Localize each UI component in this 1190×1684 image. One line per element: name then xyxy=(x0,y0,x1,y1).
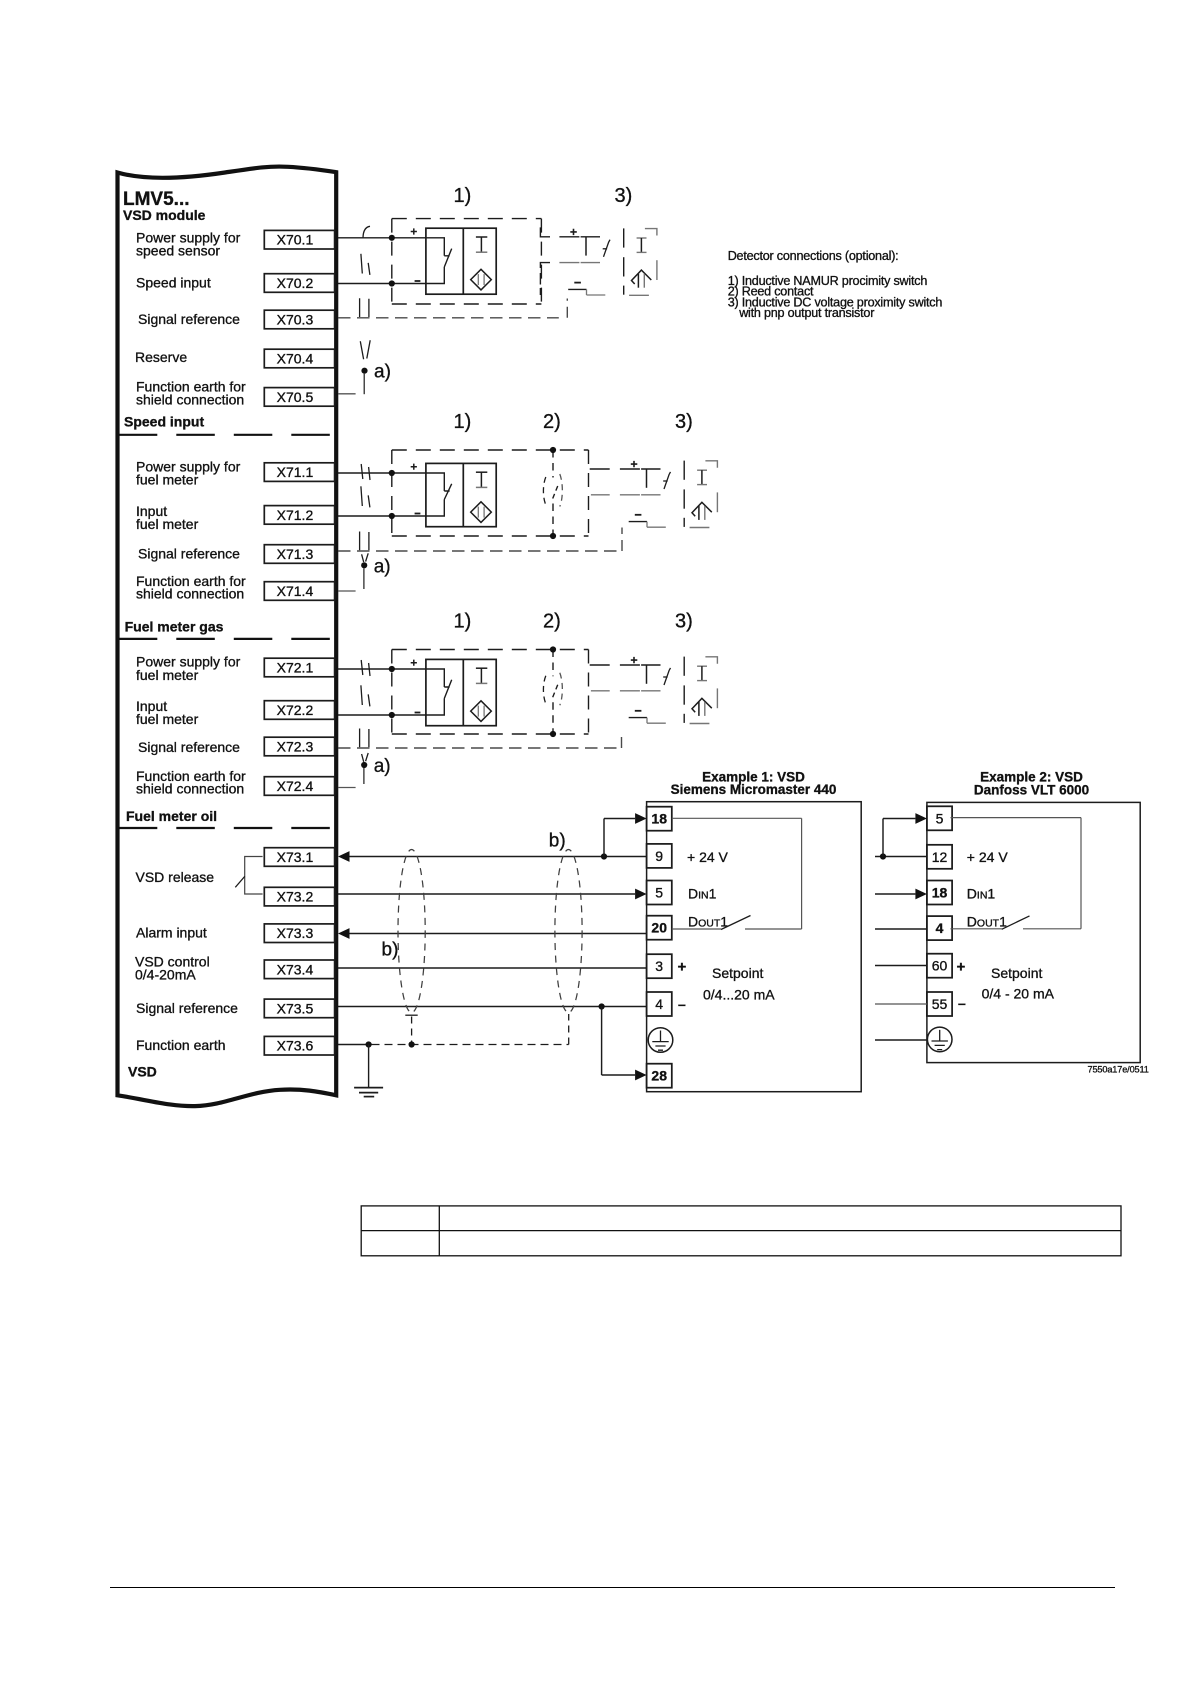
terminal Siemens 18 xyxy=(647,807,672,831)
svg-text:VSD module: VSD module xyxy=(123,207,206,223)
arrow into Danfoss 5 xyxy=(915,813,927,824)
wire X73.4 setpoint + xyxy=(338,967,647,969)
pnp switch (3): mid dashed line xyxy=(591,494,610,496)
legend table column divider xyxy=(438,1206,440,1256)
terminal X70.1 xyxy=(264,230,334,249)
svg-text:b): b) xyxy=(549,831,566,852)
svg-text:X72.4: X72.4 xyxy=(277,778,314,794)
svg-text:–: – xyxy=(958,995,966,1011)
junction dot Danfoss branch xyxy=(880,853,886,859)
NAMUR internal contact loop xyxy=(426,473,452,516)
pnp switch (3): mid dashed line xyxy=(540,263,550,268)
junction dot - wire / enclosure xyxy=(389,712,395,718)
svg-text:shield connection: shield connection xyxy=(136,586,244,602)
pnp switch (3): plus rail dashes xyxy=(590,468,610,470)
pnp switch (3): output box right dash xyxy=(656,260,658,280)
pnp switch (3): mid dashed line xyxy=(591,690,610,692)
pnp switch (3): plus sign xyxy=(631,657,638,663)
terminal X71.4 xyxy=(264,582,334,601)
pnp switch (3): contact stem xyxy=(646,665,648,684)
section separator dashed line (Speed input) xyxy=(119,434,335,436)
wire X73.5 signal reference xyxy=(338,1006,647,1008)
arrow into terminal 28 xyxy=(635,1070,647,1081)
cable marks above function-earth node a) xyxy=(360,340,370,359)
function earth shield stub wire xyxy=(338,393,356,395)
terminal Danfoss 12 xyxy=(927,845,952,869)
ground symbol drop xyxy=(368,1045,370,1088)
shield 1 dashed drop to function earth xyxy=(411,1017,413,1045)
svg-text:fuel meter: fuel meter xyxy=(136,516,199,532)
pnp switch (3): plus sign xyxy=(570,229,577,235)
pnp switch (3): minus sign xyxy=(635,514,642,516)
pnp switch (3): contact blade and tick xyxy=(663,480,667,482)
svg-text:1): 1) xyxy=(454,611,472,633)
dashed enclosure around detector variants xyxy=(391,650,393,735)
junction dot reed bottom xyxy=(550,731,556,737)
terminal Siemens 9 xyxy=(647,844,672,868)
svg-text:DOUT1: DOUT1 xyxy=(688,913,728,929)
cable marks on + wire xyxy=(363,226,370,238)
node a) junction dot xyxy=(361,762,367,768)
NAMUR divider xyxy=(462,228,464,294)
node a) drop wire xyxy=(363,568,365,589)
cable marks above function-earth node a) xyxy=(362,753,369,762)
signal reference dashed upturn xyxy=(621,528,623,552)
svg-text:60: 60 xyxy=(932,958,948,974)
terminal X70.4 xyxy=(264,349,334,368)
DOUT1 riser to terminal 5 (Danfoss) xyxy=(1080,818,1082,929)
svg-text:X70.1: X70.1 xyxy=(277,232,314,248)
pnp switch (3): output box corner dashes xyxy=(705,657,717,664)
svg-text:Speed input: Speed input xyxy=(136,275,211,291)
svg-text:X73.1: X73.1 xyxy=(277,849,314,865)
DOUT1 switch blade xyxy=(721,916,751,930)
junction dot + wire / enclosure xyxy=(389,470,395,476)
terminal X72.4 xyxy=(264,777,334,796)
cable marks above function-earth node a) xyxy=(362,553,369,562)
svg-text:5: 5 xyxy=(655,885,663,901)
svg-text:Signal reference: Signal reference xyxy=(138,311,240,327)
svg-text:1): 1) xyxy=(454,185,472,207)
pnp switch (3): divider dashes xyxy=(623,228,625,247)
terminal Danfoss 18 xyxy=(927,881,952,905)
Siemens PE earth circle symbol xyxy=(648,1028,673,1053)
svg-text:0/4...20 mA: 0/4...20 mA xyxy=(703,987,775,1003)
terminal Danfoss 55 xyxy=(927,992,952,1016)
function earth shield stub wire xyxy=(338,590,356,592)
terminal X73.5 xyxy=(264,999,334,1018)
svg-text:X70.4: X70.4 xyxy=(277,351,314,367)
Example 1 VSD box xyxy=(647,802,862,1092)
junction dot reed bottom xyxy=(550,533,556,539)
svg-text:Signal reference: Signal reference xyxy=(138,739,240,755)
wire + from terminal to sensor xyxy=(338,472,426,474)
NAMUR diamond symbol xyxy=(471,701,492,722)
svg-text:Signal reference: Signal reference xyxy=(136,1000,238,1016)
arrow into terminal 5 xyxy=(635,889,647,900)
junction dot shield 1 / function earth xyxy=(409,1041,415,1047)
svg-text:a): a) xyxy=(374,557,391,578)
svg-text:b): b) xyxy=(382,940,399,961)
pnp switch (3): output box bottom dash xyxy=(690,723,710,725)
svg-text:4: 4 xyxy=(655,996,663,1012)
node a) drop wire xyxy=(363,768,365,784)
polarity - mark at NAMUR entry xyxy=(415,513,421,515)
branch wire up to terminal 18 xyxy=(603,819,605,857)
junction dot X73.1 branch xyxy=(601,853,607,859)
junction dot - wire / enclosure xyxy=(389,280,395,286)
signal reference dashed wire xyxy=(338,747,618,749)
svg-text:X73.2: X73.2 xyxy=(277,889,314,905)
DOUT1 switch blade (Danfoss) xyxy=(1002,916,1030,929)
pnp switch (3): minus rail with step xyxy=(568,288,586,290)
wire X73.1 with left arrow (from VSD to module) xyxy=(338,851,350,862)
LMV5 module outline (wavy-torn box) xyxy=(118,167,337,1107)
pnp switch (3): minus sign xyxy=(574,282,581,284)
svg-text:+ 24 V: + 24 V xyxy=(687,849,729,865)
terminal Siemens 4 xyxy=(647,992,672,1016)
cable marks crossing signal reference xyxy=(360,729,369,748)
node a) drop wire xyxy=(363,374,365,395)
svg-text:X72.3: X72.3 xyxy=(277,739,314,755)
cable marks on + wire xyxy=(361,660,370,676)
terminal Siemens 20 xyxy=(647,916,672,940)
svg-text:9: 9 xyxy=(655,848,663,864)
pnp switch (3): left edge dashes xyxy=(539,273,541,285)
svg-text:X72.1: X72.1 xyxy=(277,660,314,676)
svg-text:DOUT1: DOUT1 xyxy=(967,913,1007,929)
junction dot - wire / enclosure xyxy=(389,513,395,519)
svg-text:3): 3) xyxy=(675,411,693,433)
polarity + mark at NAMUR entry xyxy=(411,464,417,470)
terminal X73.1 xyxy=(264,848,334,867)
terminal Danfoss 60 xyxy=(927,954,952,978)
terminal X70.5 xyxy=(264,388,334,407)
svg-text:X70.2: X70.2 xyxy=(277,275,314,291)
svg-text:X73.3: X73.3 xyxy=(277,925,314,941)
NAMUR internal contact loop xyxy=(426,669,452,715)
cable shield ellipse b) #1 xyxy=(398,850,425,1013)
reed contact symbol (2) with dashed capsule xyxy=(552,450,554,478)
terminal X73.4 xyxy=(264,960,334,979)
arrow into terminal 18 xyxy=(635,813,647,824)
pnp switch (3): output box bottom dash xyxy=(629,294,649,296)
section separator dashed line (Fuel meter gas) xyxy=(119,638,335,640)
terminal X71.3 xyxy=(264,545,334,564)
Danfoss PE earth circle symbol xyxy=(927,1027,952,1052)
pnp switch (3): contact blade and tick xyxy=(603,248,607,250)
svg-text:fuel meter: fuel meter xyxy=(136,667,199,683)
pnp switch (3): output box corner dashes xyxy=(705,461,717,468)
cable shield ellipse b) #2 xyxy=(555,850,582,1013)
DOUT1 wire to riser xyxy=(745,928,802,930)
svg-text:7550a17e/0511: 7550a17e/0511 xyxy=(1088,1064,1149,1074)
wire + from terminal to sensor xyxy=(338,237,426,239)
cable marks crossing signal reference xyxy=(360,532,369,551)
svg-text:fuel meter: fuel meter xyxy=(136,472,199,488)
pnp switch (3): output I mark xyxy=(637,237,647,239)
terminal X73.6 xyxy=(264,1036,334,1055)
svg-text:Function earth: Function earth xyxy=(136,1037,226,1053)
signal reference dashed upturn xyxy=(621,731,623,748)
NAMUR sensing element I mark xyxy=(476,471,487,473)
section separator dashed line (Fuel meter oil) xyxy=(119,827,335,829)
svg-text:+: + xyxy=(678,959,687,976)
pnp switch (3): output box right dash xyxy=(716,492,718,512)
pnp switch (3): contact stem xyxy=(646,469,648,488)
pnp switch (3): contact blade and tick xyxy=(663,676,667,678)
svg-text:Reserve: Reserve xyxy=(135,349,187,365)
terminal X71.1 xyxy=(264,463,334,482)
svg-text:Setpoint: Setpoint xyxy=(712,965,763,981)
pnp switch (3): plus sign xyxy=(631,461,638,467)
svg-text:X71.4: X71.4 xyxy=(277,583,314,599)
svg-text:Speed input: Speed input xyxy=(124,414,204,430)
svg-text:shield connection: shield connection xyxy=(136,781,244,797)
svg-text:X73.4: X73.4 xyxy=(277,961,314,977)
legend table row divider xyxy=(361,1230,1121,1232)
DOUT1 wire to riser (Danfoss) xyxy=(1023,928,1081,930)
svg-text:X73.5: X73.5 xyxy=(277,1000,314,1016)
cable marks crossing signal reference xyxy=(360,298,369,317)
terminal X72.2 xyxy=(264,701,334,720)
svg-text:Fuel meter gas: Fuel meter gas xyxy=(125,619,224,635)
pnp switch (3): contact stem xyxy=(585,237,587,256)
DOUT1 wire from terminal 4 (Danfoss) xyxy=(951,928,1002,930)
dashed enclosure around detector variants xyxy=(391,219,393,304)
svg-text:DIN1: DIN1 xyxy=(688,886,717,902)
pnp switch (3): divider dashes xyxy=(683,657,685,676)
DOUT1 wire from terminal 20 xyxy=(672,928,721,930)
branch wire down to terminal 28 xyxy=(601,1007,603,1076)
pnp switch (3): plus rail dashes xyxy=(590,664,610,666)
NAMUR internal contact loop xyxy=(426,238,452,284)
svg-text:0/4-20mA: 0/4-20mA xyxy=(135,967,196,983)
branch up to Danfoss 5 xyxy=(882,819,884,857)
NAMUR sensing element I mark xyxy=(476,236,487,238)
svg-text:+ 24 V: + 24 V xyxy=(967,849,1009,865)
node a) junction dot xyxy=(361,368,367,374)
svg-text:X70.3: X70.3 xyxy=(277,312,314,328)
pnp switch (3): output I mark xyxy=(697,665,707,667)
NAMUR divider xyxy=(462,659,464,725)
pnp switch (3): output I mark xyxy=(697,469,707,471)
svg-text:2): 2) xyxy=(543,411,561,433)
NAMUR diamond symbol xyxy=(471,502,492,523)
node a) junction dot xyxy=(361,562,367,568)
svg-text:0/4 - 20 mA: 0/4 - 20 mA xyxy=(982,986,1055,1002)
svg-text:12: 12 xyxy=(932,849,948,865)
wire - from terminal to sensor xyxy=(338,283,426,285)
NAMUR divider xyxy=(462,463,464,526)
svg-text:shield connection: shield connection xyxy=(136,392,244,408)
svg-text:3: 3 xyxy=(655,958,663,974)
pnp switch (3): plus rail dashes xyxy=(540,227,550,236)
junction dot function earth xyxy=(366,1041,372,1047)
reed contact blade xyxy=(553,682,559,697)
stub wire to Danfoss 60 xyxy=(875,965,927,967)
svg-text:X71.2: X71.2 xyxy=(277,507,314,523)
stub wire to Danfoss PE xyxy=(875,1039,927,1041)
reed contact blade xyxy=(553,484,559,499)
cable marks on + wire xyxy=(361,464,370,480)
terminal X70.2 xyxy=(264,274,334,293)
DOUT1 riser to terminal 18 xyxy=(801,818,803,929)
svg-text:5: 5 xyxy=(936,810,944,826)
wire - from terminal to sensor xyxy=(338,515,426,517)
NAMUR proximity switch symbol (1), outer box xyxy=(426,659,496,725)
wire - from terminal to sensor xyxy=(338,714,426,716)
svg-text:Siemens Micromaster 440: Siemens Micromaster 440 xyxy=(671,782,837,797)
svg-text:Alarm input: Alarm input xyxy=(136,925,207,941)
wire X73.3 with left arrow (alarm) xyxy=(338,928,350,939)
junction dot + wire / enclosure xyxy=(389,235,395,241)
junction dot reed top xyxy=(550,646,556,652)
stub wire to Danfoss 4 xyxy=(875,928,927,930)
svg-text:28: 28 xyxy=(651,1068,667,1084)
svg-text:3): 3) xyxy=(675,611,693,633)
svg-text:Signal reference: Signal reference xyxy=(138,546,240,562)
pnp switch (3): pnp output arrow xyxy=(692,502,712,516)
polarity - mark at NAMUR entry xyxy=(415,280,421,282)
svg-text:55: 55 xyxy=(932,996,948,1012)
signal reference dashed upturn xyxy=(566,299,568,318)
svg-text:X72.2: X72.2 xyxy=(277,702,314,718)
svg-text:Fuel meter oil: Fuel meter oil xyxy=(126,808,217,824)
svg-text:a): a) xyxy=(374,362,391,383)
VSD release contact slash xyxy=(235,876,245,887)
VSD release changeover contact bracket xyxy=(245,857,263,895)
svg-text:Setpoint: Setpoint xyxy=(991,965,1042,981)
function earth shield stub wire xyxy=(338,787,356,789)
pnp switch (3): output box bottom dash xyxy=(690,527,710,529)
polarity + mark at NAMUR entry xyxy=(411,660,417,666)
legend table frame xyxy=(361,1206,1121,1256)
terminal X71.2 xyxy=(264,506,334,525)
NAMUR proximity switch symbol (1), outer box xyxy=(426,228,496,294)
pnp switch (3): minus rail with step xyxy=(629,521,647,523)
pnp switch (3): pnp output arrow xyxy=(632,270,652,284)
svg-text:fuel meter: fuel meter xyxy=(136,711,199,727)
terminal X70.3 xyxy=(264,310,334,329)
dashed enclosure around detector variants xyxy=(391,450,393,536)
cable marks above - wire xyxy=(361,254,370,275)
terminal Danfoss 5 xyxy=(927,806,952,830)
NAMUR sensing element I mark xyxy=(476,667,487,669)
ground symbol bars xyxy=(354,1087,383,1089)
wire X73.6 function earth solid part xyxy=(338,1044,369,1046)
stub wire to Danfoss 12 (+24V) xyxy=(875,856,927,858)
svg-text:with pnp output transistor: with pnp output transistor xyxy=(738,306,874,320)
terminal X72.1 xyxy=(264,658,334,677)
shield 1 bottom tick xyxy=(405,1014,417,1016)
NAMUR proximity switch symbol (1), outer box xyxy=(426,463,496,526)
junction dot X73.5 branch xyxy=(599,1003,605,1009)
svg-text:4: 4 xyxy=(936,920,944,936)
pnp switch (3): minus sign xyxy=(635,710,642,712)
pnp switch (3): pnp output arrow xyxy=(692,698,712,712)
svg-text:2): 2) xyxy=(543,611,561,633)
svg-text:–: – xyxy=(678,996,686,1012)
svg-text:Detector connections (optional: Detector connections (optional): xyxy=(728,249,899,263)
svg-text:18: 18 xyxy=(651,811,667,827)
pnp switch (3): divider dashes xyxy=(683,461,685,480)
terminal Siemens 28 xyxy=(647,1064,672,1088)
arrow into Danfoss 18 xyxy=(915,889,927,900)
function earth dashed upturn to shield 2 xyxy=(568,1014,570,1045)
svg-text:VSD release: VSD release xyxy=(136,869,215,885)
footer rule xyxy=(110,1587,1115,1589)
pnp switch (3): minus rail with step xyxy=(629,717,647,719)
pnp switch (3): output box right dash xyxy=(716,688,718,708)
wire X73.2 to DIN1 xyxy=(338,893,635,895)
NAMUR diamond symbol xyxy=(471,269,492,290)
svg-text:3): 3) xyxy=(615,185,633,207)
svg-text:+: + xyxy=(957,959,966,976)
junction dot + wire / enclosure xyxy=(389,666,395,672)
svg-text:speed sensor: speed sensor xyxy=(136,243,220,259)
Example 2 VSD box xyxy=(927,802,1140,1062)
stub wire to Danfoss 55 xyxy=(875,1003,927,1005)
svg-text:20: 20 xyxy=(651,920,667,936)
signal reference dashed wire xyxy=(338,317,559,319)
svg-text:X70.5: X70.5 xyxy=(277,389,314,405)
junction dot reed top xyxy=(550,447,556,453)
svg-text:1): 1) xyxy=(454,411,472,433)
stub wire to Danfoss 18 xyxy=(875,893,915,895)
svg-text:18: 18 xyxy=(932,885,948,901)
cable marks above - wire xyxy=(361,486,370,507)
terminal Danfoss 4 xyxy=(927,916,952,940)
svg-text:X71.3: X71.3 xyxy=(277,546,314,562)
svg-text:DIN1: DIN1 xyxy=(967,886,996,902)
cable marks above - wire xyxy=(361,685,370,706)
polarity + mark at NAMUR entry xyxy=(411,228,417,234)
svg-text:VSD: VSD xyxy=(128,1063,157,1079)
svg-text:X71.1: X71.1 xyxy=(277,464,314,480)
terminal Siemens 3 xyxy=(647,954,672,978)
pnp switch (3): output box corner dashes xyxy=(645,229,657,236)
polarity - mark at NAMUR entry xyxy=(415,712,421,714)
function earth dashed wire xyxy=(372,1044,569,1046)
reed contact symbol (2) with dashed capsule xyxy=(552,650,554,677)
terminal Siemens 5 xyxy=(647,881,672,905)
terminal X73.3 xyxy=(264,924,334,943)
svg-text:Danfoss VLT 6000: Danfoss VLT 6000 xyxy=(974,782,1089,797)
wire + from terminal to sensor xyxy=(338,668,426,670)
svg-text:a): a) xyxy=(374,756,391,777)
svg-text:X73.6: X73.6 xyxy=(277,1038,314,1054)
signal reference dashed wire xyxy=(338,550,618,552)
terminal X73.2 xyxy=(264,887,334,906)
terminal X72.3 xyxy=(264,737,334,756)
